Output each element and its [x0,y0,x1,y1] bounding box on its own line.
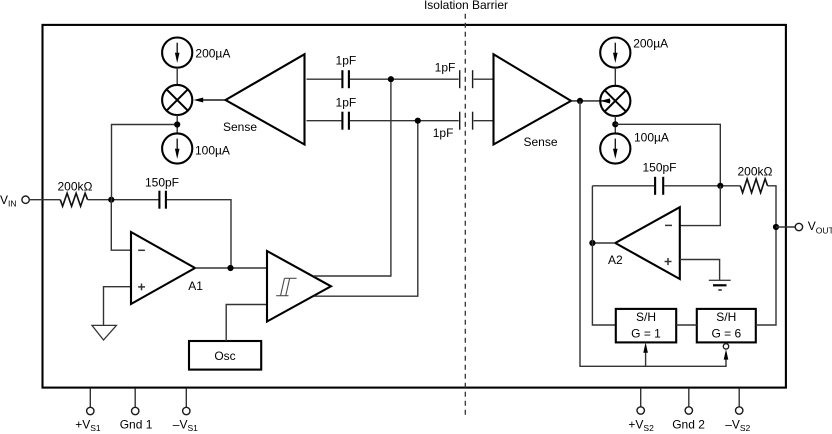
svg-text:150pF: 150pF [642,161,676,175]
svg-text:200µA: 200µA [633,37,668,51]
svg-text:S/H: S/H [636,310,656,324]
svg-text:150pF: 150pF [145,175,179,189]
svg-text:100µA: 100µA [195,144,230,158]
svg-text:A2: A2 [608,253,623,267]
svg-text:1pF: 1pF [336,53,357,67]
svg-text:200kΩ: 200kΩ [738,165,773,179]
svg-text:Sense: Sense [523,135,557,149]
svg-text:Isolation Barrier: Isolation Barrier [424,0,508,12]
svg-text:G = 1: G = 1 [631,327,661,341]
svg-text:Sense: Sense [223,120,257,134]
svg-text:1pF: 1pF [435,61,456,75]
svg-text:G = 6: G = 6 [711,327,741,341]
svg-text:Osc: Osc [214,349,235,363]
svg-text:100µA: 100µA [634,130,669,144]
svg-text:S/H: S/H [716,310,736,324]
svg-text:Gnd 1: Gnd 1 [120,417,153,431]
svg-text:200kΩ: 200kΩ [58,180,93,194]
svg-text:A1: A1 [188,279,203,293]
svg-text:Gnd 2: Gnd 2 [672,417,705,431]
svg-text:1pF: 1pF [433,126,454,140]
svg-text:200µA: 200µA [195,47,230,61]
svg-text:1pF: 1pF [336,96,357,110]
